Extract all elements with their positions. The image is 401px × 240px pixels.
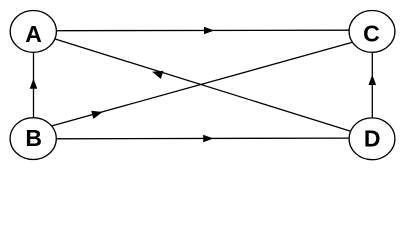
arrowhead B->A xyxy=(30,78,38,88)
arrowhead A->C xyxy=(204,27,214,35)
arrowhead D->C xyxy=(369,75,377,85)
wire D to C (right vertical edge) xyxy=(371,52,373,118)
wire B to C (diagonal edge) xyxy=(52,42,353,126)
svg-text:C: C xyxy=(363,20,380,46)
arrowhead B->D xyxy=(203,135,213,143)
svg-text:B: B xyxy=(25,125,42,151)
arrowhead D->A xyxy=(152,71,163,79)
arrowhead B->C xyxy=(91,111,102,119)
node B xyxy=(10,118,56,160)
wire A to C (top horizontal edge) xyxy=(56,29,349,32)
node A xyxy=(10,11,56,53)
node D xyxy=(349,118,395,160)
wire D to A (diagonal edge) xyxy=(55,39,351,131)
wire B to A (left vertical edge) xyxy=(33,52,35,118)
node C xyxy=(349,11,395,53)
svg-text:A: A xyxy=(25,21,42,47)
svg-text:D: D xyxy=(364,126,381,152)
wire B to D (bottom horizontal edge) xyxy=(56,137,349,140)
